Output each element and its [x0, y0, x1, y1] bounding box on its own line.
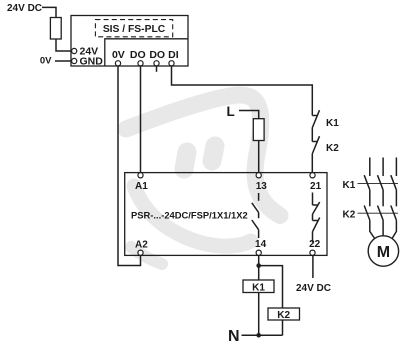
svg-text:K1: K1 — [252, 282, 265, 293]
wire three-phase supply stub L3 — [395, 158, 397, 177]
PLC inner partition — [105, 39, 188, 66]
wire feedback contacts to terminal 21 — [311, 154, 313, 173]
terminal 21 — [310, 173, 315, 178]
PLC unit U1 box — [71, 16, 188, 67]
wire terminal 22 to 24V DC — [312, 255, 314, 278]
phase wire L3 to motor — [392, 220, 396, 238]
phase wire L3 between contactors — [395, 190, 397, 207]
terminal A2 — [138, 250, 143, 255]
wire between safety contacts — [258, 213, 260, 219]
wire fuse F2 to terminal 13 — [258, 141, 260, 173]
svg-text:N: N — [228, 328, 240, 345]
wire stub at PLC DO2 — [156, 66, 158, 72]
svg-text:GND: GND — [80, 56, 104, 68]
terminal DO 2 of PLC — [154, 61, 159, 66]
K2 mechanical linkage line — [358, 212, 399, 214]
safety contact 2 (NO) in path 13-14 — [252, 220, 259, 230]
wire three-phase supply stub L2 — [382, 158, 384, 177]
terminal 24V of PLC — [72, 48, 77, 53]
wire between signal contacts — [312, 214, 314, 221]
wire 24V DC to fuse F1 — [42, 7, 56, 17]
wire between feedback contacts — [311, 128, 313, 142]
wire L to fuse F2 — [239, 111, 259, 119]
terminal DO 1 of PLC — [138, 61, 143, 66]
wire terminal 13 to first safety contact — [258, 193, 260, 201]
svg-text:14: 14 — [255, 239, 267, 250]
svg-text:24V DC: 24V DC — [7, 3, 42, 14]
wire fuse F1 to terminal 24V — [56, 39, 71, 51]
wire N line — [242, 334, 283, 336]
svg-text:DO: DO — [149, 49, 165, 61]
svg-text:0V: 0V — [112, 49, 125, 61]
terminal 13 — [256, 173, 261, 178]
svg-text:PSR-...-24DC/FSP/1X1/1X2: PSR-...-24DC/FSP/1X1/1X2 — [131, 209, 248, 220]
PLC dashed name box — [95, 20, 172, 37]
svg-text:K1: K1 — [343, 180, 356, 191]
signal contact 1 (NC) in path 21-22 — [313, 204, 318, 206]
K1 mechanical linkage line — [358, 183, 399, 185]
contact K2 auxiliary NC (feedback) — [312, 141, 317, 143]
wire PLC 0V to relay A2 — [118, 66, 141, 266]
svg-text:M: M — [377, 244, 390, 261]
svg-text:22: 22 — [309, 239, 321, 250]
contactor K1 main contact pole 3 — [391, 175, 397, 190]
svg-text:21: 21 — [310, 181, 322, 192]
terminal 22 — [310, 250, 315, 255]
svg-text:K2: K2 — [343, 210, 356, 221]
fuse F1 — [50, 18, 61, 40]
wire PLC DO1 to relay A1 — [140, 66, 142, 173]
contactor K2 main contact pole 1 — [364, 206, 370, 221]
svg-text:A1: A1 — [135, 181, 148, 192]
svg-text:K2: K2 — [326, 143, 339, 154]
svg-text:SIS / FS-PLC: SIS / FS-PLC — [103, 24, 166, 35]
phase wire L1 to motor — [370, 220, 375, 238]
fuse F2 — [253, 119, 264, 141]
svg-text:A2: A2 — [135, 240, 148, 251]
contactor K1 main contact pole 2 — [378, 175, 384, 190]
terminal DI of PLC — [169, 61, 174, 66]
terminal GND of PLC — [72, 58, 77, 63]
contact K1 auxiliary NC (feedback) — [312, 115, 317, 117]
svg-text:K1: K1 — [326, 118, 339, 129]
branch wire to coil K2 — [259, 266, 283, 308]
watermark (Phoenix Contact plug logo, light gray) — [126, 95, 280, 264]
svg-text:0V: 0V — [40, 56, 52, 67]
svg-text:L: L — [227, 104, 235, 119]
terminal A1 — [138, 173, 143, 178]
contactor K1 main contact pole 1 — [364, 175, 370, 190]
terminal 0V of PLC — [115, 61, 120, 66]
safety relay U2 box — [125, 173, 327, 256]
phase wire L2 to motor — [382, 220, 384, 236]
wire safety contact to terminal 14 — [258, 230, 260, 238]
terminal 14 — [256, 250, 261, 255]
relay coil K2 — [268, 308, 300, 320]
wire N line to coil K2 — [282, 320, 284, 335]
wire 0V to terminal GND — [55, 60, 72, 62]
wire three-phase supply stub L1 — [369, 158, 371, 177]
svg-text:DI: DI — [168, 49, 179, 61]
motor M1 — [368, 236, 398, 266]
svg-text:24V DC: 24V DC — [296, 283, 331, 294]
contactor K2 main contact pole 3 — [391, 206, 397, 221]
wire PLC DI to feedback loop — [172, 66, 313, 116]
wire signal contact to terminal 22 — [312, 232, 314, 243]
svg-text:DO: DO — [130, 49, 146, 61]
phase wire L2 between contactors — [382, 190, 384, 207]
wire coil K1 to N line — [258, 293, 260, 336]
svg-text:K2: K2 — [277, 310, 290, 321]
wire terminal 14 to coil K1 — [258, 255, 260, 280]
signal contact 2 (NC) in path 21-22 — [313, 220, 318, 222]
safety contact 1 (NO) in path 13-14 — [252, 203, 259, 213]
junction node on N line — [256, 333, 261, 338]
wire terminal 21 to first signal contact — [312, 193, 314, 206]
phase wire L1 between contactors — [369, 190, 371, 207]
junction node below terminal 14 — [256, 263, 261, 268]
contactor K2 main contact pole 2 — [378, 206, 384, 221]
relay coil K1 — [243, 280, 274, 293]
svg-text:13: 13 — [256, 181, 268, 192]
